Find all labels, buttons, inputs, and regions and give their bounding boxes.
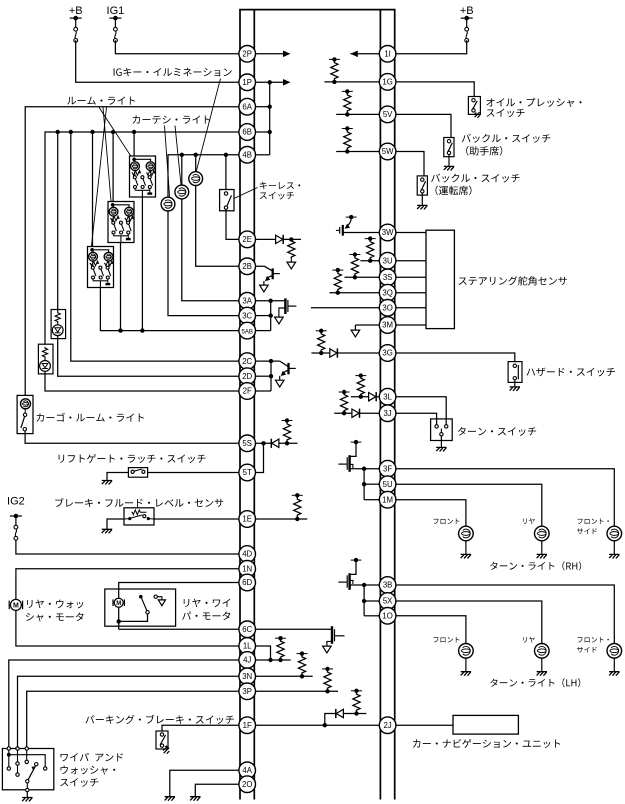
svg-text:4A: 4A (242, 766, 252, 775)
svg-text:4J: 4J (243, 656, 251, 665)
svg-text:1N: 1N (242, 565, 252, 574)
svg-text:3O: 3O (382, 304, 392, 313)
svg-text:IG1: IG1 (107, 5, 125, 17)
svg-text:M: M (13, 602, 19, 609)
svg-text:4D: 4D (242, 550, 252, 559)
svg-text:1I: 1I (384, 50, 391, 59)
svg-text:6D: 6D (242, 578, 252, 587)
svg-text:2B: 2B (242, 262, 252, 271)
svg-text:3N: 3N (242, 672, 252, 681)
svg-text:6B: 6B (242, 128, 252, 137)
svg-text:+B: +B (460, 5, 474, 17)
svg-text:3J: 3J (383, 409, 391, 418)
svg-text:1F: 1F (243, 721, 252, 730)
svg-text:3W: 3W (382, 228, 394, 237)
svg-text:5U: 5U (383, 480, 393, 489)
svg-text:4B: 4B (242, 151, 252, 160)
svg-text:IG2: IG2 (7, 496, 25, 508)
svg-text:1M: 1M (382, 495, 393, 504)
svg-text:5V: 5V (383, 110, 393, 119)
svg-text:5T: 5T (243, 468, 252, 477)
svg-text:2J: 2J (383, 721, 391, 730)
svg-text:6C: 6C (242, 625, 252, 634)
svg-text:6A: 6A (242, 102, 252, 111)
svg-text:3L: 3L (383, 392, 392, 401)
svg-text:5W: 5W (382, 147, 394, 156)
svg-text:3M: 3M (382, 321, 393, 330)
svg-text:3U: 3U (383, 256, 393, 265)
svg-text:3C: 3C (242, 311, 252, 320)
svg-text:3Q: 3Q (382, 288, 392, 297)
svg-text:+B: +B (69, 5, 83, 17)
svg-text:2D: 2D (242, 372, 252, 381)
svg-text:1L: 1L (243, 642, 252, 651)
svg-text:1O: 1O (382, 612, 392, 621)
svg-text:5S: 5S (242, 439, 252, 448)
svg-text:1P: 1P (242, 78, 252, 87)
svg-text:3A: 3A (242, 297, 252, 306)
svg-text:5AB: 5AB (242, 329, 253, 335)
svg-text:2O: 2O (242, 780, 252, 789)
svg-text:3G: 3G (382, 349, 392, 358)
svg-text:3S: 3S (383, 273, 393, 282)
svg-text:5X: 5X (383, 597, 393, 606)
svg-text:2F: 2F (243, 387, 252, 396)
svg-text:2P: 2P (242, 50, 252, 59)
svg-text:M: M (116, 601, 121, 607)
svg-text:1E: 1E (242, 515, 252, 524)
svg-text:2C: 2C (242, 357, 252, 366)
svg-text:3B: 3B (383, 581, 393, 590)
svg-text:1G: 1G (382, 78, 392, 87)
svg-text:2E: 2E (242, 235, 252, 244)
svg-text:3P: 3P (242, 687, 252, 696)
svg-text:3F: 3F (383, 464, 392, 473)
